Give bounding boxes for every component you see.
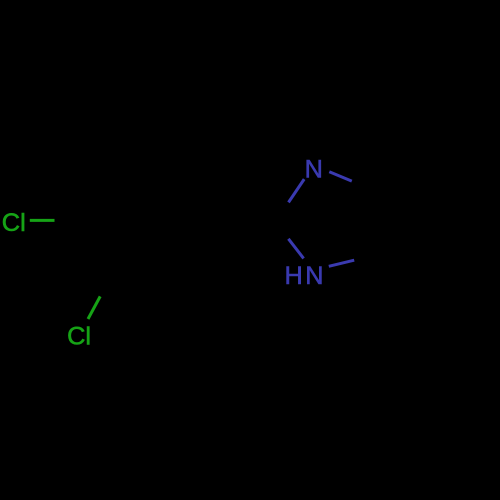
bond N3-C3a (blue half, down-right) — [329, 172, 352, 181]
svg-text:H: H — [285, 262, 303, 290]
bond N1-C7a (blue half, up-right) — [329, 260, 354, 266]
svg-text:Cl: Cl — [67, 323, 91, 351]
bond N3-C2 (blue half, down-left) — [289, 179, 305, 202]
svg-text:N: N — [305, 156, 323, 184]
bond Cl-C3 (green half, diagonal up-right) — [88, 296, 100, 319]
bond Cl-C4 (green half, horizontal) — [30, 219, 55, 222]
svg-text:Cl: Cl — [2, 209, 26, 237]
bond N1-C2 (blue half, up-left) — [288, 239, 303, 259]
svg-text:N: N — [305, 262, 323, 290]
